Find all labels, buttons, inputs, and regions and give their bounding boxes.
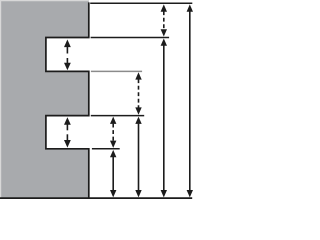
dimension: notch2 height (double arrow inside notch2) [64, 117, 71, 147]
dimension: part top to notch1 top (dashed) [161, 4, 167, 36]
part light edge (left and top) [1, 1, 89, 198]
dimension: notch2 bottom to baseline (solid) [110, 150, 116, 197]
extension line: notch1 bottom (gray) [91, 70, 142, 72]
extension line: part top [90, 2, 192, 4]
extension line: notch2 bottom [92, 148, 120, 150]
dimension: notch1 height (double arrow inside notch1) [64, 40, 71, 71]
baseline (bottom edge / datum line) [0, 197, 192, 199]
dimension: notch2 top to notch2 bottom (dashed) [110, 117, 116, 148]
dimension: notch1 top to baseline (solid) [161, 39, 167, 198]
dimension: full height, part top to baseline (solid) [187, 4, 193, 197]
part outline: right contour with two notches [46, 2, 89, 198]
dimension: notch1 bottom to notch2 top (dashed) [135, 72, 141, 114]
extension line: notch1 top [91, 37, 170, 39]
part: gray E-shaped profile [0, 0, 89, 198]
dimension: notch2 top to baseline (solid) [135, 117, 141, 198]
extension line: notch2 top [91, 115, 144, 117]
